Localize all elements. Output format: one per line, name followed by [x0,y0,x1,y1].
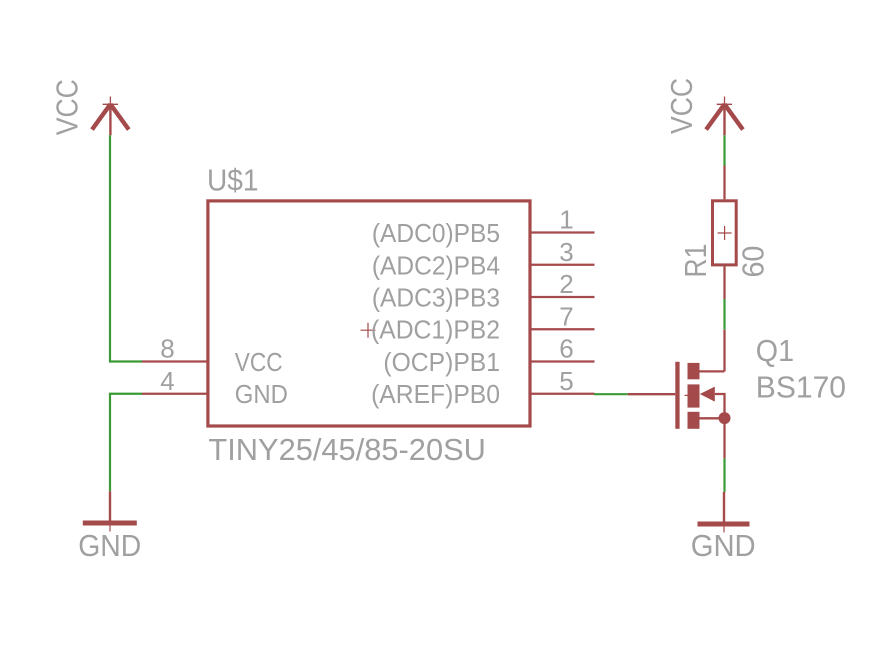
resistor R1 body [713,201,737,265]
svg-text:VCC: VCC [664,78,699,134]
svg-text:5: 5 [559,366,573,396]
svg-text:60: 60 [736,246,771,278]
svg-text:VCC: VCC [235,347,283,377]
channel bar (drain) of Q1 [688,363,700,379]
body wire of Q1 [700,394,725,418]
svg-text:1: 1 [559,205,573,235]
pin 1 of R1 [723,166,725,200]
drain pin of Q1 [700,330,725,372]
pin 8 VCC of U$1 [142,360,207,362]
wire VCC to pin 8 (vertical) [109,135,111,361]
gate bar of Q1 [675,362,679,429]
pin 4 GND of U$1 [142,393,207,395]
transistor Q1 [628,330,731,459]
wire pin 4 to GND (vertical) [109,394,111,492]
svg-text:(AREF)PB0: (AREF)PB0 [371,379,500,409]
svg-text:7: 7 [559,301,573,331]
svg-text:(ADC2)PB4: (ADC2)PB4 [372,250,500,280]
svg-text:BS170: BS170 [756,370,846,405]
wire VCC to R1 [723,135,725,165]
pin 3 PB4 [530,264,595,266]
origin cross of R1 [718,226,732,240]
gate pin of Q1 [628,393,676,395]
svg-text:U$1: U$1 [207,163,259,198]
svg-text:(ADC1)PB2: (ADC1)PB2 [371,315,500,345]
wire pin 5 to gate of Q1 [594,393,628,395]
ground symbol GND (right) [698,492,750,533]
svg-text:GND: GND [235,379,288,409]
svg-text:(ADC0)PB5: (ADC0)PB5 [372,218,500,248]
wire R1 to drain of Q1 [723,299,725,330]
pin 2 of R1 [723,266,725,299]
svg-text:8: 8 [160,334,174,364]
svg-text:3: 3 [559,237,573,267]
supply symbol VCC (right) [706,97,743,136]
channel bar (body) of Q1 [688,384,700,407]
svg-text:(ADC3)PB3: (ADC3)PB3 [372,283,500,313]
ground symbol GND (left) [83,491,137,531]
pin 6 PB1 [530,360,595,362]
svg-text:2: 2 [559,269,573,299]
svg-text:6: 6 [559,334,573,364]
svg-text:GND: GND [78,528,141,563]
svg-text:Q1: Q1 [756,333,794,368]
supply symbol VCC (left) [92,97,129,136]
svg-text:GND: GND [691,528,756,563]
origin line of Q1 [685,394,700,396]
pin 7 PB2 [530,328,595,330]
IC U$1 body [208,201,530,426]
source pin of Q1 [723,418,725,458]
pin 1 PB5 [530,231,595,233]
svg-text:R1: R1 [678,244,713,278]
svg-text:TINY25/45/85-20SU: TINY25/45/85-20SU [208,432,486,467]
wire source of Q1 to GND [723,458,725,492]
svg-text:(OCP)PB1: (OCP)PB1 [383,347,500,377]
pin 5 PB0 [530,393,595,395]
origin cross of U$1 [361,323,376,338]
wire VCC to pin 8 (horizontal) [109,360,142,362]
junction dot of Q1 [719,412,731,424]
svg-text:4: 4 [160,366,174,396]
channel bar (source) of Q1 [688,412,700,429]
body arrow of Q1 [700,387,715,402]
svg-text:VCC: VCC [50,79,85,135]
pin 2 PB3 [530,296,595,298]
wire pin 4 to GND (horizontal) [109,393,142,395]
